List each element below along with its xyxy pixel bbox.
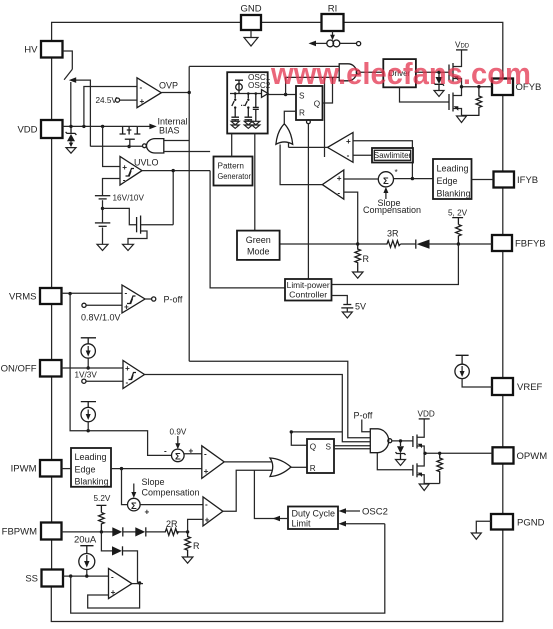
pin HV <box>41 41 63 58</box>
svg-text:Q: Q <box>314 99 320 108</box>
gate OR1 (pointing up) <box>276 124 293 145</box>
wire S node riser to NAND input <box>286 77 340 94</box>
ground below R PWM <box>182 557 193 563</box>
summer slope compensation FYB <box>378 172 393 187</box>
svg-text:VREF: VREF <box>517 382 543 393</box>
svg-text:Compensation: Compensation <box>142 488 200 498</box>
svg-text:Duty Cycle: Duty Cycle <box>292 509 336 519</box>
block Green Mode <box>237 231 280 260</box>
block Pattern Generator <box>214 157 253 186</box>
ground below zener D1 <box>66 148 76 154</box>
svg-text:Sawlimiter: Sawlimiter <box>374 151 412 160</box>
svg-text:..: .. <box>241 99 246 108</box>
svg-text:3R: 3R <box>387 229 399 239</box>
wire output node OFYB <box>462 86 493 88</box>
node 0.8V/1.0V <box>82 303 86 307</box>
svg-text:IPWM: IPWM <box>11 464 37 475</box>
arrow FET sources OFYB <box>454 76 459 80</box>
arrow FET sources OPWM <box>418 444 423 448</box>
wire bias gate output <box>90 145 142 147</box>
wire comp4 output to OR2 <box>223 470 272 511</box>
switch cap branch 2 inside OSC <box>247 92 250 95</box>
current mirror circles RI <box>327 40 334 47</box>
svg-text:-: - <box>347 151 350 160</box>
wire NAND1 to Driver <box>360 71 383 73</box>
svg-text:BIAS: BIAS <box>159 126 180 136</box>
ground below lower FET <box>457 116 467 123</box>
svg-text:-: - <box>111 573 114 582</box>
op-amp comp3 PWM <box>202 446 224 479</box>
current source VREF <box>456 355 469 364</box>
wire SS op-amp output node <box>132 583 143 585</box>
node VDD rail dots <box>69 125 72 128</box>
block Leading Edge Blanking PWM <box>71 448 111 487</box>
svg-text:R: R <box>193 541 200 551</box>
gate OR2 <box>270 458 291 477</box>
resistor pulldown OFYB <box>462 87 482 116</box>
ground below GND pin <box>244 30 258 46</box>
transistor lower FET OFYB <box>448 94 450 110</box>
wire SS branch to bottom bus <box>71 524 385 613</box>
wire summer2 to comp4 <box>140 504 203 506</box>
svg-text:Edge: Edge <box>75 465 96 475</box>
op-amp SS <box>109 569 132 599</box>
svg-text:5, 2V: 5, 2V <box>448 209 468 218</box>
resistor R fbfyb <box>355 244 361 272</box>
svg-text:S: S <box>326 442 332 451</box>
wire PGND ground <box>476 521 491 532</box>
ground below 16V chain <box>97 244 108 250</box>
op-amp ON/OFF comparator <box>123 361 145 389</box>
op-amp VRMS comparator <box>122 285 145 313</box>
IC boundary border <box>51 22 503 621</box>
svg-text:R: R <box>299 109 305 118</box>
wire OR2 to latch2 R <box>291 466 307 468</box>
arrow slope comp PWM <box>133 484 135 495</box>
block Sawlimiter <box>372 148 413 163</box>
svg-text:R: R <box>363 254 370 264</box>
resistor R PWM <box>185 532 191 557</box>
svg-text:Limit: Limit <box>292 519 312 529</box>
wire comp1 plus tap <box>353 141 412 179</box>
wire comp1 output to OR1 <box>289 146 328 148</box>
gate NAND bias (left facing) <box>147 139 164 153</box>
svg-text:Controller: Controller <box>289 291 327 300</box>
svg-text:-: - <box>126 378 129 387</box>
wire FBPWM clamp branch <box>101 532 137 583</box>
pin VRMS <box>40 288 62 304</box>
capacitor below 16V <box>95 222 110 224</box>
pin GND <box>241 15 261 30</box>
wire OVP line to AND gate <box>189 361 370 437</box>
svg-text:Compensation: Compensation <box>363 205 421 215</box>
svg-text:+: + <box>346 137 351 146</box>
ground below M1 <box>123 244 134 250</box>
wire vertical stub mid <box>324 77 326 157</box>
wire comp1 into OR1 <box>288 142 290 147</box>
gate NAND1 <box>339 64 356 81</box>
op-amp UVLO <box>120 157 142 186</box>
supply 5V <box>332 296 348 305</box>
resistor pulldown OPWM <box>437 453 443 483</box>
wire OSC to Pattern Generator <box>231 134 233 157</box>
resistor 2R <box>165 529 179 536</box>
block Leading Edge Blanking FYB <box>433 159 472 199</box>
svg-text:5V: 5V <box>355 302 366 312</box>
wire Driver to upper gate <box>416 71 449 73</box>
svg-text:P-off: P-off <box>354 411 373 421</box>
wire summer to LEB1 <box>394 178 434 180</box>
svg-text:OPWM: OPWM <box>517 451 548 462</box>
wire AND2 to upper gate OPWM <box>392 440 413 442</box>
wire ON/OFF comp output <box>145 375 343 434</box>
wire FBFYB node to limit power <box>332 244 459 285</box>
svg-text:Limit-power: Limit-power <box>287 281 330 290</box>
pin FBPWM <box>41 523 62 540</box>
cap branch 3 inside OSC <box>255 92 258 95</box>
svg-text:OVP: OVP <box>159 81 178 91</box>
wire latch2 right wires to AND <box>334 446 370 449</box>
svg-text:VRMS: VRMS <box>9 292 36 303</box>
arrow RI left <box>314 42 327 44</box>
pin ON/OFF <box>40 360 62 377</box>
wire VRMS to comp <box>62 292 123 294</box>
pin RI <box>322 14 344 31</box>
svg-text:OSC2: OSC2 <box>248 81 271 90</box>
wire VDD rail <box>63 125 138 127</box>
ground below lower FET OPWM <box>419 484 429 491</box>
op-amp comp2 (left facing) <box>322 170 344 199</box>
svg-text:R: R <box>310 464 316 473</box>
zener gate clamp OPWM <box>400 441 402 446</box>
transistor upper FET OFYB <box>448 65 450 81</box>
svg-text:24.5V: 24.5V <box>96 96 118 105</box>
svg-text:Pattern: Pattern <box>218 162 245 171</box>
wire OSC buffer to latch S <box>268 94 296 96</box>
svg-text:0.9V: 0.9V <box>170 428 187 437</box>
arrow SS into DCL <box>345 523 385 525</box>
wire UVLO minus to reference <box>103 179 121 196</box>
transistor upper FET OPWM <box>412 436 414 447</box>
hysteresis glyph VRMS comp <box>127 296 136 304</box>
svg-text:HV: HV <box>24 45 38 56</box>
svg-text:Mode: Mode <box>247 247 270 257</box>
gate AND2 P-off <box>370 429 388 453</box>
pin SS <box>42 570 64 587</box>
svg-text:Leading: Leading <box>437 164 469 174</box>
hysteresis glyph UVLO <box>126 169 135 177</box>
wire latch1 Qbar bubble down <box>307 120 311 124</box>
wire DCL output with arrow <box>254 470 288 518</box>
svg-text:-: - <box>337 189 340 198</box>
op-amp comp4 PWM <box>203 497 223 526</box>
diode FBFYB <box>417 240 430 249</box>
wire P-off output <box>145 298 152 300</box>
svg-text:-: - <box>125 289 128 298</box>
power Vdd OFYB <box>456 49 468 51</box>
wire Q bus to AND <box>291 431 342 433</box>
current source 1 <box>81 338 96 344</box>
svg-text:2R: 2R <box>166 519 178 529</box>
svg-text:IFYB: IFYB <box>517 175 538 186</box>
svg-text:GND: GND <box>240 4 261 15</box>
svg-text:P-off: P-off <box>164 295 183 305</box>
zener gate clamp OFYB <box>436 77 443 84</box>
svg-text:20uA: 20uA <box>74 535 97 546</box>
pin VREF <box>492 378 513 395</box>
transistor M1 pulldown <box>103 208 137 224</box>
wire VDD to UVLO plus <box>103 126 120 166</box>
zener D1 VDD (cathode up) <box>66 126 77 134</box>
op-amp OVP <box>137 78 161 108</box>
svg-text:-: - <box>123 175 126 184</box>
wire SS op-amp feedback <box>88 583 140 608</box>
hysteresis glyph ON/OFF comp <box>129 373 137 381</box>
wire OVP minus riser <box>84 87 137 127</box>
svg-text:+: + <box>204 467 209 476</box>
diode clamp <box>112 546 122 555</box>
latch SR 2 <box>307 439 334 473</box>
svg-text:0.8V/1.0V: 0.8V/1.0V <box>81 313 121 323</box>
capacitor bias cluster on VDD rail <box>120 126 141 134</box>
wire ON/OFF to comp <box>62 367 124 369</box>
wire ON/OFF line bend to AND gate <box>342 433 370 442</box>
switch cap branch 1 inside OSC <box>234 92 237 95</box>
transistor bias MOSFET gate bar <box>125 138 135 140</box>
svg-text:-: - <box>204 450 207 459</box>
diode FBPWM 1 <box>112 527 122 536</box>
svg-text:+: + <box>337 174 342 183</box>
svg-text:PGND: PGND <box>517 518 545 529</box>
svg-text:+: + <box>205 516 210 525</box>
ground below zener <box>434 91 444 97</box>
op-amp comp1 sawlimiter (left facing) <box>328 133 354 163</box>
wire OSC to Green Mode <box>254 134 256 231</box>
svg-text:Green: Green <box>246 235 271 245</box>
svg-text:SS: SS <box>25 574 38 585</box>
svg-text:Generator: Generator <box>218 172 252 181</box>
pin OPWM <box>493 447 514 463</box>
svg-text:Blanking: Blanking <box>75 477 109 487</box>
wire LEB1 to IFYB <box>472 179 494 181</box>
ground below R fbfyb <box>353 272 364 278</box>
svg-text:Σ: Σ <box>131 501 137 512</box>
svg-text:+: + <box>140 97 145 106</box>
svg-text:UVLO: UVLO <box>134 158 159 168</box>
wire latch1 Q to NAND <box>323 77 333 103</box>
svg-text:OSC2: OSC2 <box>362 507 388 518</box>
current source inside OSC <box>235 80 243 93</box>
node internal bias <box>127 145 130 148</box>
node 2R junction <box>186 530 189 533</box>
block OSC1 OSC2 <box>227 72 268 133</box>
wire IPWM to LEB <box>62 468 72 470</box>
arrow switch gate-drive <box>73 80 90 146</box>
svg-text:5.2V: 5.2V <box>94 494 111 503</box>
svg-text:-: - <box>164 447 167 456</box>
wire comp3 output to OR2 <box>224 461 272 463</box>
wire latch2 Q out <box>291 432 307 445</box>
svg-text:+: + <box>122 163 127 172</box>
wire AND2 bottom to lower gate <box>377 453 413 470</box>
pin FBFYB <box>492 235 512 251</box>
svg-text:FBPWM: FBPWM <box>2 527 37 538</box>
pin IFYB <box>494 172 515 188</box>
wire summer to comp2 plus <box>344 178 379 180</box>
ground below zener OPWM <box>396 460 406 466</box>
svg-text:VDD: VDD <box>17 125 37 136</box>
wire FBFYB bus <box>280 243 492 245</box>
wire OSC rail <box>230 93 262 95</box>
svg-text:RI: RI <box>328 4 338 15</box>
resistor 3R <box>386 241 401 248</box>
svg-text:+: + <box>111 588 116 597</box>
svg-text:+: + <box>125 364 130 373</box>
wire comp2 minus riser <box>344 192 358 244</box>
svg-text:Leading: Leading <box>75 452 107 462</box>
svg-text:www.elecfans.com: www.elecfans.com <box>270 56 531 91</box>
wire summer1 to comp3 <box>184 453 202 455</box>
block Driver <box>383 59 416 87</box>
wire SS bus <box>63 575 109 577</box>
wire RI to mirror <box>332 31 334 37</box>
summer slope compensation PWM <box>128 498 141 511</box>
svg-text:Edge: Edge <box>437 176 458 186</box>
svg-text:Σ: Σ <box>175 452 181 463</box>
block Limit-power Controller <box>285 279 332 301</box>
svg-text:+: + <box>145 508 150 517</box>
ground below 5V <box>342 312 352 318</box>
wire left border pin column <box>51 58 53 570</box>
wire to comp4 plus <box>188 519 203 532</box>
pin PGND <box>491 514 513 530</box>
svg-text:-: - <box>140 83 143 92</box>
current source 2 <box>81 402 96 408</box>
svg-text:VDD: VDD <box>418 410 435 419</box>
svg-text:Q: Q <box>310 442 316 451</box>
diode FBPWM 2 <box>135 527 145 536</box>
wire UVLO output <box>142 171 285 288</box>
wire comp1 minus to sawlimiter <box>353 154 373 156</box>
power VDD OPWM <box>419 418 430 420</box>
wire OR1 output to latch1 R <box>284 111 296 124</box>
arrow Internal BIAS <box>137 125 150 127</box>
buffer triangle OSC <box>262 90 269 98</box>
svg-text:-: - <box>205 500 208 509</box>
svg-text:Blanking: Blanking <box>437 189 471 199</box>
latch SR 1 <box>296 86 323 120</box>
wire VRMS branch down <box>70 294 172 456</box>
arrow slope comp FYB <box>385 191 387 200</box>
pin IPWM <box>40 460 62 477</box>
wire LEB2 out to comp3 <box>111 468 202 470</box>
wire bias gate inputs <box>164 141 210 152</box>
wire HV startup switch <box>63 51 73 126</box>
transistor lower FET OPWM <box>412 465 414 476</box>
wire FBPWM bus <box>62 531 188 533</box>
block Duty Cycle Limit <box>288 507 338 530</box>
wire OPWM node <box>424 452 492 454</box>
svg-text:FBFYB: FBFYB <box>515 239 546 250</box>
svg-text:ON/OFF: ON/OFF <box>1 364 37 375</box>
wire comp2 output to OR1 <box>280 145 322 185</box>
pin VDD <box>41 120 63 138</box>
wire tap to summer2 <box>122 469 128 505</box>
svg-text:S: S <box>299 92 305 101</box>
wire mirror to terminal <box>340 42 357 44</box>
svg-text:1V/3V: 1V/3V <box>75 371 98 380</box>
svg-text:Slope: Slope <box>142 477 165 487</box>
svg-text:16V/10V: 16V/10V <box>113 194 145 203</box>
wire Driver bottom to lower gate <box>400 87 450 102</box>
wire OVP output to NAND and down <box>161 66 339 361</box>
pin OFYB <box>492 79 513 96</box>
battery 16V/10V <box>95 195 110 197</box>
svg-text:Σ: Σ <box>383 176 389 187</box>
